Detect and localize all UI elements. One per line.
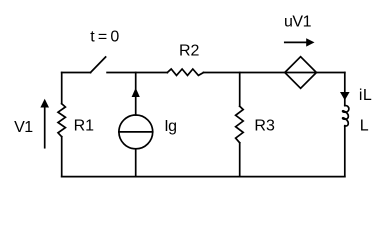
svg-text:V1: V1 xyxy=(14,119,33,136)
svg-text:iL: iL xyxy=(359,87,372,104)
svg-text:uV1: uV1 xyxy=(284,13,312,30)
svg-text:R3: R3 xyxy=(254,118,275,135)
svg-text:Ig: Ig xyxy=(164,118,176,135)
svg-text:L: L xyxy=(360,117,369,134)
svg-text:R1: R1 xyxy=(74,118,95,135)
svg-text:t=0: t=0 xyxy=(90,29,122,46)
svg-text:R2: R2 xyxy=(179,42,200,59)
